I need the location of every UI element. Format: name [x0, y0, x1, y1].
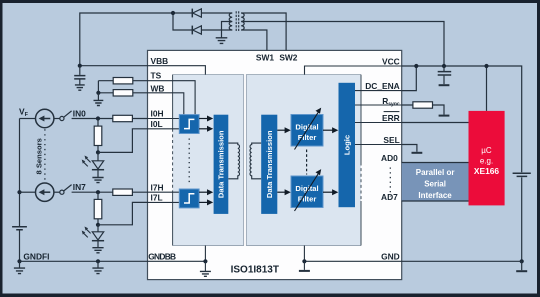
svg-text:AD0: AD0: [381, 153, 398, 163]
svg-text:I0L: I0L: [151, 119, 163, 129]
ground transformer tap: [216, 38, 228, 44]
wire VCC rail: [402, 66, 522, 172]
arrow adjustable digital filter 7: [295, 169, 322, 211]
capacitor C2 VCC bypass: [438, 66, 452, 85]
svg-text:Data Transmission: Data Transmission: [265, 130, 274, 198]
block digital filter 0: [291, 115, 323, 147]
wire transformer secondary centre tap to VCC node: [241, 22, 444, 67]
svg-text:I7H: I7H: [151, 182, 164, 192]
wire GND line outside: [402, 260, 522, 262]
node GND junction: [302, 259, 306, 263]
wire shunt to LED node: [97, 146, 99, 153]
wire TS to WB junction: [97, 81, 99, 93]
arrow schmitt7 to data-transmission upper: [199, 189, 213, 195]
wire field supply rail: [19, 119, 21, 227]
diode D1: [192, 9, 201, 18]
block logic: [339, 83, 356, 207]
wire IN7 to pin I7H: [72, 191, 148, 193]
wire shunt to LED node IN7: [97, 219, 99, 225]
coupling coil field side: [228, 143, 239, 179]
node VBB junction: [78, 64, 82, 68]
LED IN7: [82, 225, 104, 241]
node DC_ENA VCC junction: [414, 64, 418, 68]
svg-text:Parallel or: Parallel or: [416, 168, 455, 177]
dots between schmitt channels: [188, 139, 190, 186]
wire T1 primary centre tap: [222, 22, 233, 38]
wire VBB junction to pin VBB: [80, 65, 148, 67]
block microcontroller XE166: [469, 111, 505, 205]
svg-text:DC_ENA: DC_ENA: [365, 81, 399, 91]
node GND right: [520, 259, 524, 263]
wire battery to GND rail: [521, 177, 523, 261]
svg-text:GNDFI: GNDFI: [23, 252, 49, 262]
wire battery to GNDFI: [19, 231, 21, 262]
wire GNDFI line: [20, 260, 148, 262]
node junction top rail: [171, 11, 175, 15]
svg-text:Interface: Interface: [418, 191, 452, 200]
resistor TS pull-up: [98, 78, 147, 84]
current source IN7: [20, 183, 60, 201]
svg-text:I0H: I0H: [151, 109, 164, 119]
svg-text:µC: µC: [481, 146, 492, 155]
block digital filter 7: [291, 176, 323, 208]
svg-text:SW2: SW2: [279, 52, 297, 62]
node GNDBB junction: [203, 259, 207, 263]
wire pin GNDBB internal: [148, 260, 206, 262]
diode D2: [192, 26, 201, 35]
ground LED IN0: [92, 170, 103, 183]
node TS WB junction: [96, 91, 100, 95]
block data transmission logic side: [261, 115, 277, 214]
wire inner block right to GND node: [303, 246, 305, 262]
capacitor C1 VBB bypass: [74, 66, 85, 85]
ground TS WB: [94, 93, 104, 106]
wire IN7 node to shunt resistor: [97, 192, 99, 199]
wire pin I0L internal: [148, 128, 180, 130]
svg-text:VCC: VCC: [382, 56, 400, 66]
resistor IN0 series: [113, 115, 133, 121]
wire SW1 riser: [241, 30, 267, 50]
ground SEL single-bar: [412, 152, 423, 154]
transformer T1 secondary winding: [241, 13, 244, 30]
ground GNDBB: [200, 271, 211, 276]
node IN7 rail junction: [17, 190, 21, 194]
wire AD7 to microcontroller: [402, 200, 469, 202]
wire pin TS internal: [148, 81, 196, 115]
wire pin I7H internal: [148, 191, 180, 193]
wire pin SEL internal: [355, 144, 402, 146]
resistor WB pull-up: [98, 90, 147, 96]
transformer T1 core: [236, 11, 239, 31]
schmitt-trigger U2 channel 7: [179, 189, 199, 208]
svg-text:GND: GND: [381, 252, 400, 262]
svg-text:WB: WB: [151, 84, 165, 94]
ground GNDFI left: [14, 261, 25, 273]
wire SEL stub: [402, 145, 417, 152]
wire D2 cathode to transformer: [201, 29, 232, 31]
svg-text:ERR: ERR: [382, 113, 400, 123]
wire pin VBB internal: [148, 66, 206, 75]
wire ERR to microcontroller: [402, 122, 469, 124]
battery VCC supply: [513, 173, 531, 176]
ground GND single-bar: [299, 261, 310, 271]
wire node to pin I7L: [98, 202, 148, 224]
node GNDFI mid: [96, 259, 100, 263]
svg-text:IN7: IN7: [73, 182, 86, 192]
ground GNDFI mid: [92, 261, 103, 273]
ground Rsync single-bar: [439, 115, 450, 117]
svg-text:ISO1I813T: ISO1I813T: [231, 264, 279, 275]
wire branch to D2: [173, 13, 192, 30]
node VCC capacitor junction: [442, 64, 446, 68]
dots 8 sensors: [44, 129, 46, 181]
node IN7 junction: [96, 190, 100, 194]
ground LED IN7: [92, 241, 103, 253]
svg-text:VBB: VBB: [151, 56, 169, 66]
block parallel serial interface: [402, 163, 469, 202]
node microcontroller VCC junction: [484, 64, 488, 68]
svg-text:Data Transmission: Data Transmission: [217, 130, 226, 198]
ground C1: [75, 85, 85, 90]
wire IN0 node to shunt resistor: [97, 119, 99, 127]
svg-text:XE166: XE166: [474, 166, 499, 176]
wire VBB rail top-left: [80, 13, 193, 66]
block data transmission field side: [214, 115, 229, 214]
arrow schmitt7 to data-transmission lower: [199, 199, 213, 205]
svg-text:Serial: Serial: [424, 180, 446, 189]
dashes between digital filters: [306, 150, 308, 175]
LED IN0: [82, 152, 104, 169]
coupling coil logic side: [250, 143, 261, 179]
inner block logic-side (right): [246, 75, 361, 246]
ground GND right single-bar: [516, 261, 527, 271]
wire pin VCC internal: [305, 66, 402, 75]
switch IN0: [60, 111, 72, 121]
svg-text:AD7: AD7: [381, 192, 398, 202]
battery field supply: [12, 227, 27, 230]
wire pin I7L internal: [148, 201, 180, 203]
wire microcontroller to VCC: [486, 66, 488, 111]
arrow data-transmission to digital filter 7: [277, 189, 291, 195]
pin ERR overline: [384, 111, 400, 113]
arrow digital filter 7 to logic: [323, 189, 338, 195]
arrow adjustable digital filter 0: [295, 108, 322, 150]
node IN7 LED junction: [96, 223, 100, 227]
svg-text:8 Sensors: 8 Sensors: [35, 138, 44, 174]
node IN0 junction: [96, 116, 100, 120]
wire pin Rsync internal: [355, 104, 402, 106]
IC package ISO1I813T outline: [148, 50, 402, 279]
wire pin WB internal: [148, 93, 184, 115]
wire pin GND internal: [304, 260, 401, 262]
resistor IN0 shunt: [94, 126, 102, 145]
wire node to pin I0L: [98, 129, 148, 153]
wire DC_ENA to VCC: [402, 66, 417, 91]
wire inner block left to GNDBB node: [204, 246, 206, 262]
arrow data-transmission to digital filter 0: [277, 127, 291, 133]
arrow schmitt0 to data-transmission lower: [199, 126, 213, 132]
current source IN0: [20, 109, 60, 127]
arrow schmitt0 to data-transmission upper: [199, 116, 213, 122]
svg-text:e.g.: e.g.: [480, 157, 493, 166]
wire IN0 to pin I0H: [72, 118, 148, 120]
resistor IN7 series: [113, 189, 133, 195]
schmitt-trigger U2 channel 0: [179, 115, 199, 134]
wire pin I0H internal: [148, 118, 180, 120]
wire AD0 to microcontroller: [402, 162, 469, 164]
svg-text:Logic: Logic: [343, 135, 352, 155]
resistor IN7 shunt: [94, 199, 102, 218]
switch IN7: [60, 185, 72, 195]
wire SW2 riser: [241, 13, 286, 50]
arrow digital filter 0 to logic: [323, 127, 338, 133]
wire D1 cathode to transformer: [201, 12, 232, 14]
svg-text:I7L: I7L: [151, 193, 163, 203]
svg-text:TS: TS: [151, 71, 162, 81]
inner block field-side (left): [173, 75, 244, 246]
dots between AD0 and AD7: [389, 168, 391, 197]
svg-text:SEL: SEL: [383, 135, 399, 145]
node IN0 LED junction: [96, 150, 100, 154]
resistor Rsync: [402, 102, 444, 115]
node GNDFI left: [17, 259, 21, 263]
svg-text:SW1: SW1: [256, 52, 274, 62]
transformer T1 primary winding: [229, 13, 232, 30]
wire pin ERR internal: [355, 122, 402, 124]
wire pin DC_ENA internal: [355, 90, 402, 92]
svg-text:GNDBB: GNDBB: [148, 252, 176, 262]
svg-text:IN0: IN0: [73, 108, 86, 118]
